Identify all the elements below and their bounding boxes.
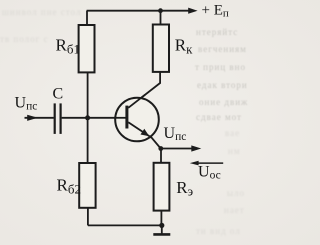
svg-text:Rэ: Rэ [176,178,193,199]
svg-text:Uос: Uос [198,164,221,182]
svg-text:Uпс: Uпс [15,94,38,112]
svg-text:Rб2: Rб2 [57,176,81,197]
svg-text:Uпс: Uпс [164,125,187,143]
svg-text:+ Eп: + Eп [202,2,229,19]
svg-text:Rб1: Rб1 [56,36,80,57]
svg-text:Rк: Rк [175,36,193,57]
svg-text:C: C [53,86,64,103]
